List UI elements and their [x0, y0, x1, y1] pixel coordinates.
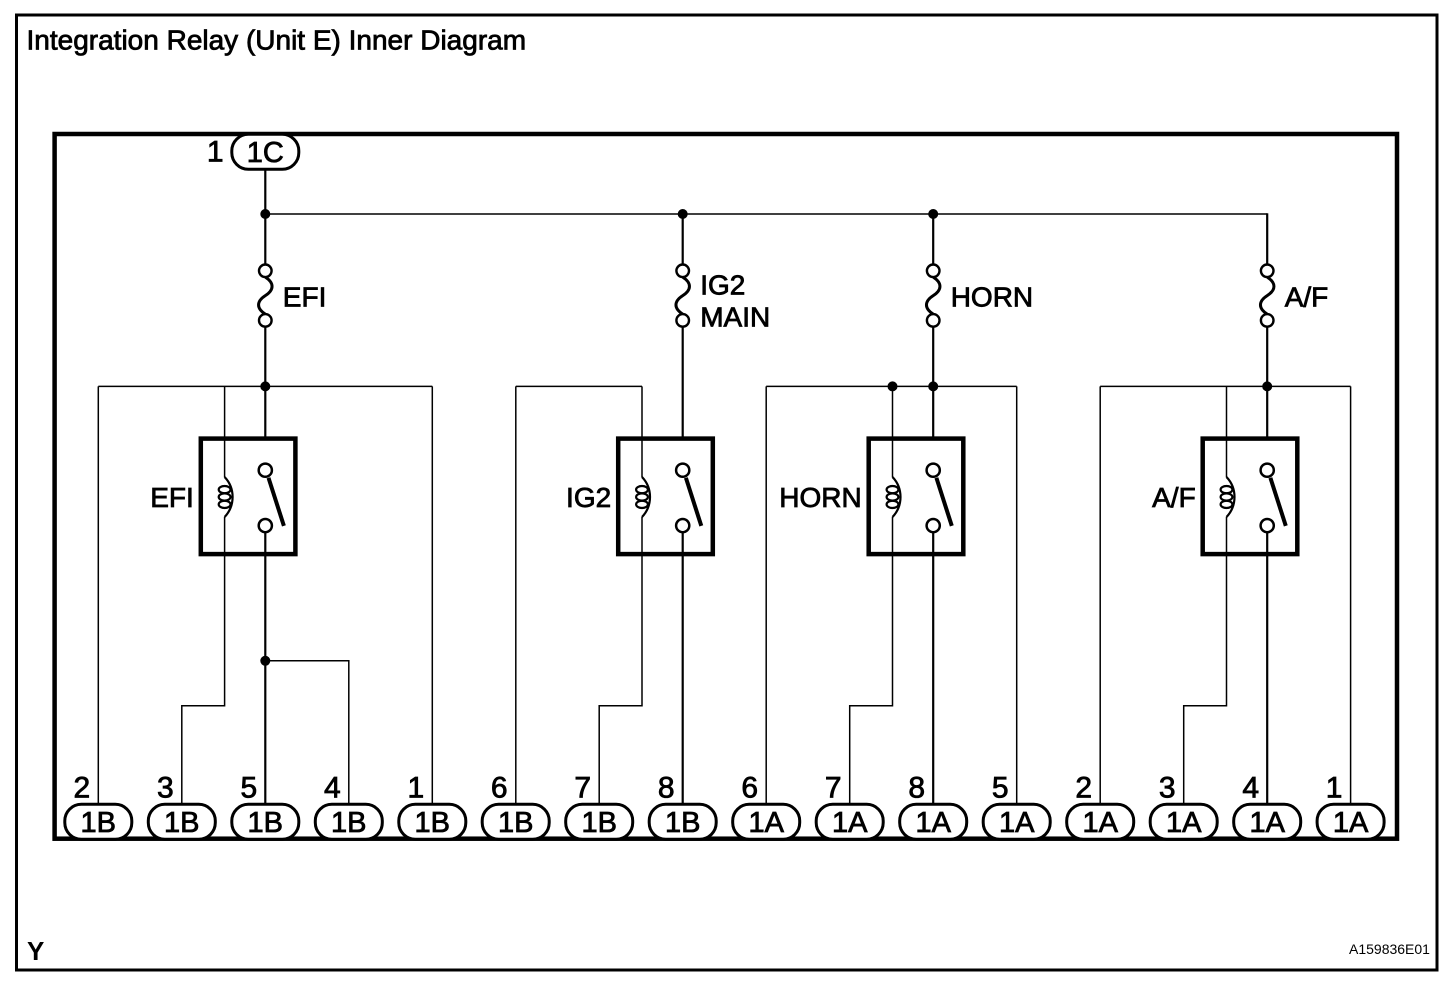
svg-text:EFI: EFI: [150, 482, 194, 513]
svg-text:A159836E01: A159836E01: [1349, 941, 1430, 957]
wire: A/F coil wire upper: [1226, 386, 1228, 477]
wire: bus drop to fuse IG2: [682, 213, 684, 264]
wire: HORN coil wire upper: [892, 386, 894, 477]
svg-text:6: 6: [491, 772, 508, 805]
relay IG2 coil: [636, 477, 650, 517]
junction node (bus / EFI): [260, 209, 270, 219]
connector 1B pin 8: [649, 804, 716, 839]
wire: bus drop to fuse HORN: [932, 213, 934, 264]
junction node (HORN horizontal / coil wire): [888, 381, 898, 391]
relay A/F switch contact bottom: [1261, 519, 1274, 532]
wire: HORN switch to connector: [932, 532, 934, 806]
svg-text:1A: 1A: [832, 807, 868, 839]
svg-text:8: 8: [658, 772, 675, 805]
svg-text:5: 5: [240, 772, 257, 805]
svg-text:1A: 1A: [915, 807, 951, 839]
wire: IG2 section horizontal: [516, 385, 642, 387]
connector 1B pin 4: [315, 804, 382, 839]
connector 1A pin 3: [1150, 804, 1217, 839]
svg-text:8: 8: [908, 772, 925, 805]
wire: IG2 coil wire upper: [641, 386, 643, 477]
wire: A/F section horizontal: [1100, 385, 1350, 387]
svg-text:1A: 1A: [1166, 807, 1202, 839]
junction node (A/F horizontal / switch wire): [1262, 381, 1272, 391]
wire: riser x=98 to connector: [97, 386, 99, 806]
svg-text:6: 6: [741, 772, 758, 805]
svg-text:A/F: A/F: [1152, 482, 1196, 513]
wire: HORN section horizontal: [766, 385, 1017, 387]
svg-text:3: 3: [1159, 772, 1176, 805]
wire: bus drop to fuse EFI: [264, 213, 266, 264]
svg-text:EFI: EFI: [283, 281, 327, 312]
relay unit box: [55, 134, 1397, 839]
svg-text:4: 4: [1242, 772, 1259, 805]
wire: A/F switch to connector: [1266, 532, 1268, 806]
wire: HORN coil wire lower + jog to connector: [850, 517, 893, 806]
junction node (bus / IG2): [678, 209, 688, 219]
svg-text:1A: 1A: [999, 807, 1035, 839]
relay HORN switch arm: [936, 478, 951, 526]
wire: EFI coil wire lower + jog to connector: [182, 517, 225, 806]
connector 1A pin 5: [983, 804, 1050, 839]
relay EFI switch contact top: [259, 464, 272, 477]
svg-text:2: 2: [1075, 772, 1092, 805]
svg-text:HORN: HORN: [779, 482, 861, 513]
relay HORN box: [869, 439, 964, 554]
wire: fuse IG2 to relay switch contact: [682, 327, 684, 464]
svg-text:2: 2: [73, 772, 90, 805]
svg-text:1A: 1A: [748, 807, 784, 839]
junction node (HORN horizontal / switch wire): [928, 381, 938, 391]
wire: riser x=1100 to connector: [1099, 386, 1101, 806]
svg-text:HORN: HORN: [951, 281, 1033, 312]
connector 1B pin 5: [232, 804, 299, 839]
connector 1B pin 1: [399, 804, 466, 839]
fuse EFI: [259, 265, 273, 327]
svg-text:1B: 1B: [81, 807, 116, 839]
svg-text:4: 4: [324, 772, 341, 805]
connector 1B pin 2: [65, 804, 132, 839]
relay A/F coil: [1221, 477, 1235, 517]
junction node (bus / HORN): [928, 209, 938, 219]
svg-text:A/F: A/F: [1285, 281, 1329, 312]
relay IG2 switch arm: [686, 478, 701, 526]
fuse IG2: [676, 265, 690, 327]
wire: A/F coil wire lower + jog to connector: [1184, 517, 1227, 806]
junction node (EFI horizontal / switch wire): [260, 381, 270, 391]
svg-text:1C: 1C: [247, 137, 284, 169]
wire: EFI switch to connector: [264, 532, 266, 806]
svg-text:Y: Y: [27, 936, 44, 966]
svg-text:1: 1: [407, 772, 424, 805]
relay EFI box: [201, 439, 296, 554]
connector 1A pin 4: [1234, 804, 1301, 839]
svg-text:3: 3: [157, 772, 174, 805]
svg-text:1: 1: [1326, 772, 1343, 805]
wire: riser x=766 to connector: [765, 386, 767, 806]
svg-text:7: 7: [825, 772, 842, 805]
wire: IG2 switch to connector: [682, 532, 684, 806]
connector 1B pin 7: [566, 804, 633, 839]
svg-text:1A: 1A: [1333, 807, 1369, 839]
wire: riser x=432 to connector: [431, 386, 433, 806]
wire: riser x=516 to connector: [515, 386, 517, 806]
svg-text:7: 7: [574, 772, 591, 805]
svg-text:Integration Relay (Unit E) Inn: Integration Relay (Unit E) Inner Diagram: [27, 25, 527, 56]
wire: EFI branch to pin 4: [265, 661, 349, 806]
connector 1B pin 6: [482, 804, 549, 839]
connector 1A pin 1: [1317, 804, 1384, 839]
fuse A/F: [1260, 265, 1274, 327]
svg-text:1B: 1B: [665, 807, 700, 839]
connector 1A pin 6: [733, 804, 800, 839]
svg-text:1A: 1A: [1082, 807, 1118, 839]
svg-text:1B: 1B: [581, 807, 616, 839]
svg-text:1B: 1B: [498, 807, 533, 839]
svg-text:1B: 1B: [164, 807, 199, 839]
junction node (EFI switch wire / branch): [260, 656, 270, 666]
wire: bus drop to fuse A/F: [1266, 213, 1268, 264]
relay IG2 switch contact top: [676, 464, 689, 477]
wire: riser x=1017 to connector: [1016, 386, 1018, 806]
connector 1C: [232, 134, 299, 169]
relay EFI switch contact bottom: [259, 519, 272, 532]
wire: EFI coil wire upper: [224, 386, 226, 477]
svg-text:MAIN: MAIN: [700, 302, 770, 333]
connector 1A pin 7: [816, 804, 883, 839]
relay HORN switch contact bottom: [927, 519, 940, 532]
svg-text:5: 5: [992, 772, 1009, 805]
wire: fuse EFI to relay switch contact: [264, 327, 266, 464]
connector 1A pin 8: [900, 804, 967, 839]
fuse label IG2 MAIN: [700, 270, 770, 333]
relay IG2 switch contact bottom: [676, 519, 689, 532]
relay A/F switch contact top: [1261, 464, 1274, 477]
svg-text:1A: 1A: [1249, 807, 1285, 839]
connector 1B pin 3: [148, 804, 215, 839]
relay A/F box: [1203, 439, 1298, 554]
svg-text:1B: 1B: [248, 807, 283, 839]
svg-text:1B: 1B: [331, 807, 366, 839]
relay EFI coil: [219, 477, 233, 517]
wire: fuse A/F to relay switch contact: [1266, 327, 1268, 464]
wire from connector 1C to bus: [264, 168, 266, 214]
svg-text:1: 1: [207, 136, 224, 169]
wire: riser x=1351 to connector: [1350, 386, 1352, 806]
svg-text:IG2: IG2: [566, 482, 611, 513]
relay HORN switch contact top: [927, 464, 940, 477]
relay A/F switch arm: [1270, 478, 1285, 526]
wire: fuse HORN to relay switch contact: [932, 327, 934, 464]
fuse HORN: [926, 265, 940, 327]
svg-text:1B: 1B: [415, 807, 450, 839]
connector 1A pin 2: [1067, 804, 1134, 839]
bus wire: [265, 213, 1267, 215]
wire: EFI section horizontal: [98, 385, 432, 387]
wire: IG2 coil wire lower + jog to connector: [599, 517, 642, 806]
relay IG2 box: [618, 439, 713, 554]
relay HORN coil: [887, 477, 901, 517]
svg-text:IG2: IG2: [700, 270, 745, 301]
relay EFI switch arm: [269, 478, 284, 526]
